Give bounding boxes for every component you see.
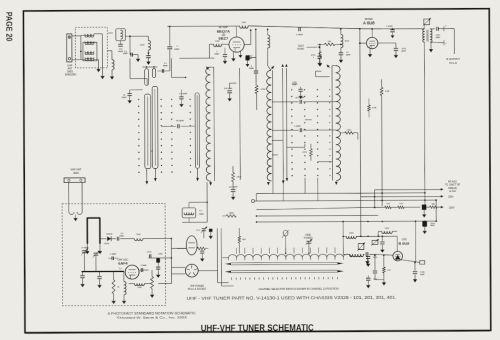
svg-text:VHF POWER: VHF POWER — [190, 286, 204, 288]
svg-text:PLUG & SOCKET: PLUG & SOCKET — [188, 289, 207, 291]
svg-text:UHF - VHF TUNER PART NO. V: UHF - VHF TUNER PART NO. V-14130-1 USED … — [187, 295, 397, 301]
svg-text:250v: 250v — [448, 195, 454, 198]
svg-text:6BZ7: 6BZ7 — [218, 36, 229, 41]
svg-text:10K: 10K — [327, 41, 331, 43]
svg-text:MMF: MMF — [430, 225, 435, 227]
svg-text:6.8K: 6.8K — [385, 91, 390, 93]
svg-text:68 MMF: 68 MMF — [176, 121, 184, 123]
svg-text:TEST: TEST — [298, 46, 304, 48]
svg-text:PAGE 20: PAGE 20 — [4, 12, 13, 42]
svg-text:1000: 1000 — [373, 257, 377, 259]
svg-text:MMF: MMF — [174, 49, 180, 51]
svg-text:MMF: MMF — [346, 55, 351, 57]
svg-text:1000: 1000 — [158, 253, 162, 255]
svg-text:TO JUNCT OF: TO JUNCT OF — [445, 185, 461, 187]
svg-text:6.8K: 6.8K — [372, 107, 377, 109]
svg-text:MMF: MMF — [163, 65, 168, 67]
svg-text:MMF: MMF — [249, 68, 254, 70]
svg-text:.002 MMF: .002 MMF — [229, 187, 239, 189]
svg-text:TO LO: TO LO — [449, 61, 457, 65]
svg-text:MMF: MMF — [215, 54, 220, 56]
svg-text:B 6U8: B 6U8 — [398, 242, 409, 246]
svg-text:©Howard W. Sams & Co., In: ©Howard W. Sams & Co., Inc. 1953 — [117, 315, 188, 319]
svg-text:SHIELDED: SHIELDED — [65, 74, 77, 76]
svg-text:MMF: MMF — [401, 51, 406, 53]
svg-text:5.6 MMF: 5.6 MMF — [179, 93, 188, 95]
svg-text:7 8: 7 8 — [367, 47, 370, 49]
svg-text:1 MMF: 1 MMF — [386, 26, 393, 28]
svg-text:A 6U8: A 6U8 — [363, 21, 375, 26]
svg-text:300Ω: 300Ω — [67, 70, 73, 73]
svg-text:1000: 1000 — [108, 33, 114, 35]
svg-text:.5 MMF: .5 MMF — [294, 126, 302, 128]
svg-text:MMF: MMF — [123, 53, 129, 55]
svg-text:MMF: MMF — [120, 235, 125, 237]
svg-text:6AF4: 6AF4 — [118, 261, 128, 265]
svg-text:470K: 470K — [237, 177, 242, 179]
svg-text:300Ω: 300Ω — [73, 172, 79, 175]
svg-text:IF OUTPUT: IF OUTPUT — [446, 57, 460, 61]
svg-text:& C24: & C24 — [449, 191, 456, 193]
svg-text:MMF: MMF — [436, 37, 441, 39]
svg-text:.5 MMF: .5 MMF — [110, 253, 118, 255]
svg-text:UHF-VHF TUNER SCHEMATIC: UHF-VHF TUNER SCHEMATIC — [201, 323, 314, 335]
svg-text:R48(A3): R48(A3) — [448, 187, 457, 190]
svg-text:MMF: MMF — [122, 97, 127, 99]
svg-text:130V: 130V — [449, 206, 455, 209]
svg-text:.5 MMF: .5 MMF — [296, 34, 304, 36]
svg-text:180K: 180K — [229, 213, 234, 215]
svg-text:470K: 470K — [261, 89, 267, 91]
svg-text:.5 MMF: .5 MMF — [140, 265, 147, 267]
svg-text:1000: 1000 — [373, 279, 377, 281]
svg-text:CATH: CATH — [104, 242, 110, 245]
svg-text:MMF: MMF — [292, 84, 297, 86]
svg-text:5: 5 — [445, 43, 446, 45]
svg-text:POINT: POINT — [297, 49, 305, 51]
svg-text:150 MMF: 150 MMF — [224, 88, 234, 90]
svg-text:CHANNEL SELECTOR SWITCH SHO: CHANNEL SELECTOR SWITCH SHOWN IN CHANNEL… — [259, 286, 339, 290]
svg-text:MMF: MMF — [199, 214, 204, 216]
svg-text:3-4: 3-4 — [119, 268, 122, 270]
svg-text:RF AGC: RF AGC — [448, 180, 457, 183]
svg-text:OSC: OSC — [402, 238, 407, 241]
svg-text:2: 2 — [445, 26, 446, 28]
svg-text:1N82A: 1N82A — [106, 233, 113, 236]
svg-text:1000: 1000 — [137, 287, 141, 289]
